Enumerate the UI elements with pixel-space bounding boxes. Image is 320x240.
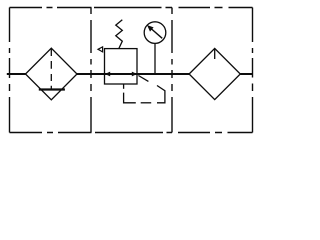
regulator R1: body box — [105, 49, 138, 84]
filter F1: dashed element centerline — [50, 49, 52, 89]
regulator R1: internal flow path — [105, 73, 138, 75]
regulator R1: pilot feedback dashed bottom run — [141, 102, 152, 104]
regulator R1: left flow arrowhead — [105, 72, 110, 77]
enclosure bottom edge box 1 — [10, 132, 92, 134]
gauge G1: needle — [147, 25, 162, 38]
regulator R1: pilot feedback dashed diagonal — [138, 76, 148, 82]
regulator R1: adjustment spring — [116, 20, 123, 49]
enclosure divider 2 (dashed vertical) — [171, 8, 173, 133]
gauge G1: stem — [154, 43, 156, 74]
wire: inlet flow line — [7, 73, 26, 75]
filter F1: diamond body — [26, 48, 78, 100]
enclosure divider 1 (dashed vertical) — [90, 8, 92, 133]
wire: outlet flow line — [240, 73, 252, 75]
filter F1: water trap baffle line — [39, 88, 65, 90]
enclosure bottom edge box 2 — [95, 132, 172, 134]
wire: regulator to lubricator — [137, 73, 189, 75]
lubricator L1: diamond body — [189, 48, 240, 99]
gauge G1: dial circle — [144, 22, 166, 44]
regulator R1: pilot feedback dashed stub to body — [123, 84, 125, 89]
enclosure bottom edge box 3 — [178, 132, 253, 134]
wire: filter to regulator — [77, 73, 105, 75]
regulator R1: pilot feedback dashed left corner — [124, 93, 136, 103]
enclosure box 2 (regulator unit) dashed frame top edge — [94, 7, 172, 9]
enclosure box 3 (lubricator unit) dashed frame top edge — [179, 7, 253, 9]
enclosure right edge (dashed) — [252, 8, 254, 133]
regulator R1: relief vent arrow — [98, 47, 103, 52]
regulator R1: pilot feedback dashed right corner — [157, 86, 165, 103]
lubricator L1: drip line — [214, 49, 216, 59]
enclosure box 1 (filter unit) dashed frame top edge — [10, 7, 92, 9]
enclosure left edge (dashed) — [9, 8, 11, 133]
regulator R1: right flow arrowhead — [132, 72, 137, 77]
